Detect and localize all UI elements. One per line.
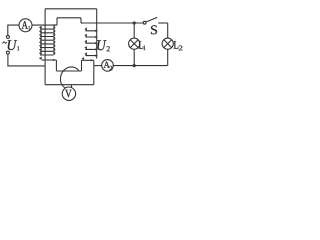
core left leg outer edge <box>44 9 46 85</box>
wire from left terminal up to ammeter A1 <box>8 25 19 35</box>
lamp L2 <box>162 38 173 49</box>
wire secondary node to ammeter A2 <box>94 65 102 67</box>
terminal top of source <box>6 35 9 38</box>
wire source bottom, down and right <box>8 54 45 66</box>
secondary coil P2 turn lines <box>85 31 96 56</box>
bottom return wire A2 to lamps <box>113 65 167 67</box>
ammeter A2 letter A <box>104 62 110 68</box>
secondary coil P2 turn end caps <box>82 27 98 61</box>
ammeter A1 subscript 1 <box>28 26 30 30</box>
primary coil bottom lead <box>42 59 57 61</box>
lamp label L1 subscript 1 <box>144 46 146 51</box>
primary coil P1 turn end caps <box>39 24 57 61</box>
lamp L1 bottom wire <box>133 49 135 66</box>
terminal bottom of source <box>6 51 9 54</box>
wire down to lamp L1 <box>133 23 135 38</box>
core bottom base line <box>56 70 81 72</box>
ammeter A1 letter A <box>22 21 28 28</box>
voltmeter letter V <box>65 90 71 97</box>
ammeter A2 subscript 2 <box>109 66 112 70</box>
voltmeter right stub <box>71 85 73 88</box>
AC tilde symbol <box>3 42 7 44</box>
yoke left tick <box>56 18 58 25</box>
junction dot top <box>133 21 136 24</box>
core right leg outer edge <box>96 9 98 59</box>
bottom rail wire <box>45 84 94 86</box>
switch S blade <box>146 17 157 22</box>
lamp label L1 letter L <box>139 41 144 49</box>
secondary label U2 subscript 2 <box>107 46 110 51</box>
crossing arc from voltmeter to secondary <box>60 67 78 88</box>
yoke right tick <box>80 18 82 23</box>
yoke bottom bar <box>57 17 81 19</box>
lead arrow secondary top <box>82 22 84 24</box>
primary bottom lead drop <box>55 60 57 71</box>
wire right side of rail up to secondary bottom node <box>93 60 95 84</box>
secondary bottom lead riser <box>81 60 83 71</box>
secondary coil bottom lead <box>82 59 94 61</box>
wire after switch to top-right corner <box>158 22 168 24</box>
ammeter A2 <box>102 60 114 72</box>
secondary top wire to switch <box>81 22 143 24</box>
voltmeter V <box>62 87 75 100</box>
switch S pivot <box>143 21 146 24</box>
wire A1 to core left <box>32 24 57 26</box>
junction dot bottom <box>133 64 136 67</box>
source label U1 letter U <box>8 40 17 50</box>
ammeter A1 <box>19 19 32 32</box>
lamp label L2 letter L <box>174 41 179 49</box>
wire down to lamp L2 <box>167 23 169 38</box>
lamp label L2 subscript 2 <box>179 46 183 51</box>
secondary label U2 letter U <box>97 40 106 50</box>
primary coil P1 turn lines <box>40 29 53 55</box>
lamp L1 <box>129 38 140 49</box>
source label U1 subscript 1 <box>17 46 19 50</box>
transformer core top bar <box>45 8 97 10</box>
switch label S <box>151 25 157 34</box>
lamp L2 bottom wire <box>167 49 169 66</box>
